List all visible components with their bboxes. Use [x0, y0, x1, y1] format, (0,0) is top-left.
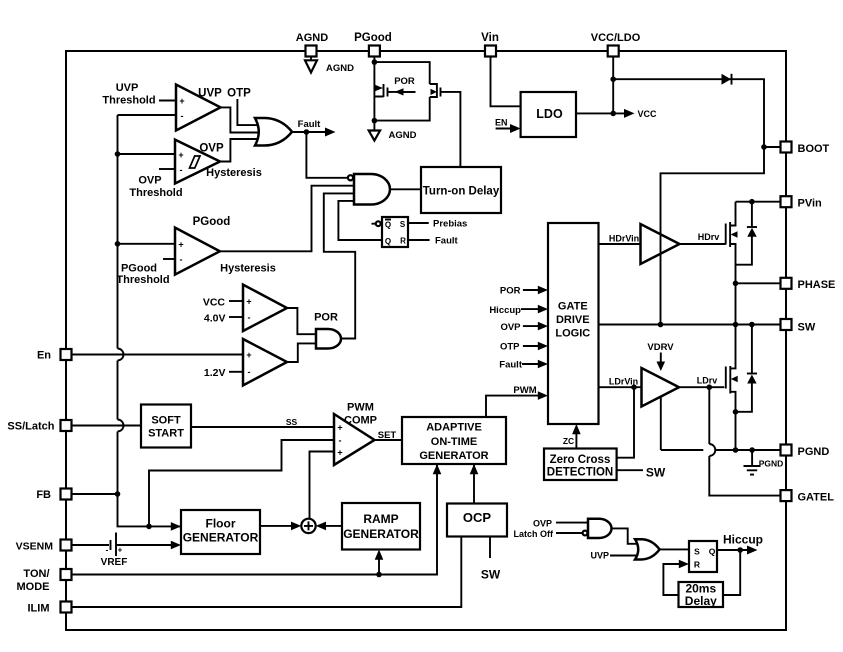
wire: UVP plus stub	[159, 100, 176, 102]
svg-text:EN: EN	[495, 118, 508, 128]
wire: prebias latch S to Prebias label	[408, 222, 429, 224]
wire: OVP output to OR gate	[220, 139, 262, 162]
IC boundary	[66, 51, 786, 630]
svg-text:UVP: UVP	[116, 82, 139, 94]
summing junction	[301, 519, 315, 533]
comparator VCC 4.0V	[243, 285, 287, 331]
svg-text:POR: POR	[314, 312, 338, 324]
node: TON ramp junction	[376, 572, 382, 578]
pin BOOT	[781, 142, 792, 153]
node: PGood pin top junction	[372, 59, 378, 65]
pin PGND	[781, 445, 792, 456]
svg-text:+: +	[118, 546, 123, 555]
ground PGND symbol	[744, 466, 761, 475]
transistor Q-high NMOS	[725, 224, 727, 245]
wire: 4.0V minus stub	[229, 316, 243, 318]
wire: GDL HDrVin output to high driver	[599, 243, 643, 245]
svg-text:Floor: Floor	[206, 517, 236, 531]
wire: hiccup AND OVP input	[556, 522, 588, 524]
wire: OCP SW stub	[489, 537, 491, 559]
node: bus-OVP junction	[115, 151, 121, 157]
wire: low FET drain to SW line	[730, 325, 735, 369]
wire: OCP to adaptive on-time	[473, 457, 475, 504]
wire: VCC plus stub	[229, 300, 243, 302]
wire: low driver output LDrv to low FET gate	[679, 386, 724, 388]
wire: PHASE line to pin	[736, 282, 781, 284]
svg-text:VDRV: VDRV	[647, 342, 674, 353]
node: LDrv GATEL junction	[707, 384, 713, 390]
arrow: OCP into adaptive	[470, 464, 479, 474]
wire: FB/threshold vertical bus with hops over En and SS lines	[118, 115, 182, 526]
arrow: GDL POR input	[538, 286, 548, 295]
svg-text:UVP: UVP	[198, 88, 222, 100]
svg-text:PGND: PGND	[798, 446, 830, 458]
svg-text:AGND: AGND	[326, 63, 354, 74]
pin SW	[781, 319, 792, 330]
svg-text:GATEL: GATEL	[798, 492, 835, 504]
arrow: Hiccup output	[747, 546, 758, 555]
wire: BOOT feed down to high side driver	[661, 147, 765, 218]
svg-text:4.0V: 4.0V	[204, 313, 226, 325]
node: PGood pin bottom junction	[372, 118, 378, 124]
svg-text:Hysteresis: Hysteresis	[206, 167, 262, 179]
svg-text:GENERATOR: GENERATOR	[343, 527, 419, 541]
wire: branch up to ramp generator bottom	[378, 555, 380, 575]
svg-text:LDrv: LDrv	[697, 376, 718, 386]
ground AGND symbol top	[305, 60, 317, 72]
arrow: ZC into GDL	[572, 424, 581, 434]
wire: POR AND output to fault AND input	[324, 193, 355, 338]
wire: SS/Latch pin to SOFT START	[71, 425, 141, 427]
wire: high FET drain to PVin line	[730, 202, 735, 226]
svg-text:UVP: UVP	[590, 551, 609, 561]
wire: hop arc over SS/Latch line	[118, 420, 124, 432]
node: high diode on PVin	[749, 199, 755, 205]
block ADAPTIVE ON-TIME GENERATOR	[402, 417, 506, 464]
svg-text:PGood: PGood	[354, 32, 392, 44]
block RAMP GENERATOR	[342, 503, 420, 550]
wire: prebias latch Q feedback to fault AND input	[338, 201, 382, 240]
wire: PWM comp third input from summing node	[310, 452, 336, 520]
svg-text:PWM: PWM	[513, 385, 536, 396]
wire: GDL OVP input	[523, 325, 541, 327]
pin FB	[61, 489, 72, 500]
and-gate fault combiner	[354, 174, 390, 205]
block Turn-on Delay	[421, 167, 501, 213]
wire: high side body diode branch	[736, 202, 752, 265]
pin GATEL	[781, 490, 792, 501]
arrow: GDL OTP input	[538, 342, 548, 351]
svg-text:+: +	[337, 448, 342, 458]
svg-text:RAMP: RAMP	[363, 512, 398, 526]
wire: GDL OTP input	[523, 345, 541, 347]
wire: UVP input to hiccup OR	[610, 555, 640, 557]
svg-text:Threshold: Threshold	[116, 274, 169, 286]
wire: En line to 1.2V comparator	[71, 354, 243, 356]
svg-text:OCP: OCP	[463, 510, 492, 525]
svg-text:ADAPTIVE: ADAPTIVE	[426, 422, 482, 434]
arrow: VREF into floor generator	[171, 541, 181, 550]
svg-text:Q: Q	[385, 221, 391, 230]
pin PHASE	[781, 278, 792, 289]
svg-text:+: +	[178, 240, 183, 250]
svg-text:VREF: VREF	[101, 557, 128, 568]
wire: high FET source down	[730, 244, 735, 283]
arrow: VDRV into low driver	[660, 353, 662, 365]
svg-text:SS/Latch: SS/Latch	[7, 421, 54, 433]
svg-text:Threshold: Threshold	[102, 95, 155, 107]
node: VCC junction	[610, 111, 616, 117]
wire: PGood plus input	[118, 243, 176, 245]
wire: hop arc over En line	[118, 349, 124, 361]
pin VCC/LDO	[608, 46, 619, 57]
svg-text:HDrVin: HDrVin	[609, 234, 639, 244]
svg-text:SW: SW	[481, 568, 501, 582]
wire: PGND line from low driver return to PGND pin	[661, 449, 781, 451]
svg-text:DRIVE: DRIVE	[556, 314, 590, 326]
wire: VCC/LDO pin vertical	[612, 57, 614, 114]
svg-text:TON/: TON/	[23, 568, 49, 580]
svg-text:-: -	[339, 436, 342, 446]
wire: OVP plus input	[118, 153, 176, 155]
block Zero Cross DETECTION	[544, 449, 617, 481]
svg-text:START: START	[148, 428, 184, 440]
svg-text:PGood: PGood	[193, 216, 231, 228]
wire: left PMOS gate line with arrow	[389, 91, 416, 93]
svg-text:MODE: MODE	[17, 581, 50, 593]
svg-text:Vin: Vin	[481, 32, 499, 44]
svg-text:+: +	[179, 96, 184, 106]
svg-text:LDrVin: LDrVin	[609, 377, 638, 387]
pin SS/Latch	[61, 420, 72, 431]
svg-text:+: +	[178, 150, 183, 160]
svg-text:Prebias: Prebias	[433, 219, 467, 230]
wire: EN arrow line into LDO	[496, 128, 514, 130]
svg-text:Hiccup: Hiccup	[723, 533, 763, 547]
svg-text:Fault: Fault	[298, 119, 322, 130]
wire: hiccup OR output to latch S	[660, 548, 689, 550]
svg-text:ON-TIME: ON-TIME	[431, 436, 477, 448]
arrow: GDL PWM input	[538, 391, 548, 400]
pin PVin	[781, 196, 792, 207]
svg-text:AGND: AGND	[296, 32, 328, 44]
svg-text:OTP: OTP	[227, 88, 251, 100]
block GATE DRIVE LOGIC	[548, 223, 599, 424]
svg-text:PVin: PVin	[798, 198, 823, 210]
svg-text:Q: Q	[709, 547, 716, 557]
svg-text:Q: Q	[385, 237, 391, 246]
svg-text:-: -	[181, 111, 184, 121]
svg-text:SET: SET	[378, 430, 397, 441]
svg-text:Fault: Fault	[499, 360, 523, 371]
arrow: GDL OVP input	[538, 322, 548, 331]
svg-text:SOFT: SOFT	[151, 415, 181, 427]
svg-text:OVP: OVP	[199, 143, 224, 155]
wire: FET chain vertical to SW line	[735, 283, 737, 324]
pin En	[61, 349, 72, 360]
svg-text:-: -	[106, 546, 109, 555]
svg-text:GATE: GATE	[558, 301, 588, 313]
comparator 1.2V	[243, 339, 287, 385]
buffer low side driver	[642, 368, 680, 407]
arrow: Fault output	[325, 128, 336, 137]
node: PGND ground junction	[749, 447, 755, 453]
node: bus-PGood junction	[115, 241, 121, 247]
inverter bubble on Latch Off input	[583, 531, 588, 536]
wire: UVP minus input	[118, 114, 177, 116]
svg-text:+: +	[246, 350, 251, 360]
block 20ms Delay	[679, 582, 724, 607]
wire: LDO output to VCC arrow	[576, 112, 627, 114]
wire: GDL Fault input	[522, 363, 541, 365]
node: FB junction	[115, 491, 121, 497]
latch U-hiccup SR	[689, 541, 717, 572]
transistor Q-low NMOS	[725, 367, 727, 389]
node: FET chain on SW	[733, 322, 739, 328]
pin AGND	[306, 46, 317, 57]
svg-text:Hiccup: Hiccup	[489, 305, 521, 316]
svg-text:-: -	[180, 165, 183, 175]
wire: prebias latch Qbar stub with bubble	[372, 223, 376, 225]
wire: UVP output to OR gate	[221, 107, 263, 132]
or-gate hiccup (with UVP)	[635, 539, 660, 559]
buffer high side driver	[641, 224, 680, 264]
node: low diode anode junction	[733, 409, 739, 415]
pin ILIM	[61, 602, 72, 613]
wire: hiccup feedback down to 20ms delay	[723, 550, 740, 595]
wire: right PMOS gate to Turn-on Delay top	[442, 92, 460, 167]
svg-text:S: S	[400, 220, 406, 229]
wire: PGND ground stub	[751, 450, 753, 466]
svg-text:Hysteresis: Hysteresis	[220, 263, 276, 275]
wire: 20ms delay output to latch R	[663, 564, 681, 595]
wire: GDL Hiccup input	[521, 308, 541, 310]
svg-text:Threshold: Threshold	[129, 187, 182, 199]
arrow: EN into LDO	[510, 124, 521, 133]
svg-text:GENERATOR: GENERATOR	[183, 531, 259, 545]
pin TON/MODE	[61, 569, 72, 580]
svg-text:VCC: VCC	[203, 297, 226, 309]
svg-text:FB: FB	[36, 489, 51, 501]
svg-text:VCC/LDO: VCC/LDO	[591, 32, 641, 44]
wire: PWM output of adaptive block to gate drive logic	[486, 396, 541, 417]
wire: ILIM line to OCP	[71, 537, 461, 608]
svg-text:R: R	[694, 560, 700, 570]
comparator PWM COMP	[334, 414, 375, 465]
wire: TON/MODE line to adaptive on-time bottom	[71, 457, 437, 575]
svg-text:-: -	[248, 367, 251, 377]
comparator PGood	[175, 228, 220, 275]
node: floor input junction	[146, 524, 152, 530]
wire: FB pin to bus	[71, 493, 118, 495]
arrow: GDL Fault input	[538, 360, 548, 369]
arrow: FB into floor generator	[171, 522, 181, 531]
wire: SOFT START output SS to PWM comp plus	[191, 426, 335, 428]
svg-text:ILIM: ILIM	[28, 603, 50, 615]
wire: GDL LDrVin output to low driver	[599, 386, 644, 388]
wire: low side body diode branch	[736, 325, 752, 412]
svg-text:POR: POR	[394, 76, 415, 87]
hysteresis symbol inside OVP comparator	[190, 156, 201, 168]
svg-text:-: -	[248, 313, 251, 323]
wire: hiccup latch Q output	[717, 549, 753, 551]
arrow: TON into ramp generator	[375, 550, 384, 560]
wire: VSENM pin through VREF to floor generator	[71, 544, 109, 546]
wire: VCC/LDO branch through boot diode to BOOT pin	[613, 79, 780, 147]
wire: zero cross SW stub	[617, 469, 643, 471]
wire: ZC output up to GDL	[575, 430, 577, 449]
svg-text:OVP: OVP	[138, 175, 161, 187]
and-gate hiccup (OVP/Latch Off)	[588, 519, 612, 538]
arrow into left PMOS gate	[395, 88, 404, 95]
node: BOOT junction	[761, 144, 767, 150]
node: VCC/LDO upper junction	[610, 76, 616, 82]
wire: OVP minus stub	[159, 168, 175, 170]
arrow: floor into summing	[291, 522, 301, 531]
node: low FET source on PGND	[733, 447, 739, 453]
svg-text:PWM: PWM	[347, 402, 374, 414]
wire: floor generator output to summing node	[260, 525, 295, 527]
wire: VCC comparator output to POR AND	[287, 308, 316, 334]
wire: PWM comp minus from floor line	[149, 440, 335, 526]
svg-text:R: R	[400, 237, 406, 246]
wire: prebias latch R to Fault label	[408, 239, 430, 241]
svg-text:Zero Cross: Zero Cross	[550, 454, 611, 466]
svg-text:LOGIC: LOGIC	[555, 328, 590, 340]
svg-text:OVP: OVP	[500, 322, 521, 333]
svg-text:OVP: OVP	[533, 518, 552, 528]
block SOFT START	[141, 405, 191, 448]
svg-text:-: -	[180, 255, 183, 265]
wire: SW net line from GDL to SW pin	[599, 324, 781, 326]
wire: fault AND output to Turn-on Delay	[390, 188, 421, 190]
wire: high driver output HDrv to high FET gate	[680, 243, 726, 245]
diode D-low body	[747, 373, 757, 375]
node: PHASE junction	[733, 281, 739, 287]
comparator UVP	[176, 85, 221, 131]
wire: PGood pin to AGND vertical	[373, 57, 375, 131]
svg-text:Delay: Delay	[685, 594, 717, 608]
latch U-prebias SR	[382, 217, 408, 247]
wire: PWM comp SET output to adaptive on-time	[375, 439, 403, 441]
comparator OVP	[175, 140, 220, 184]
block OCP	[447, 504, 507, 537]
svg-text:+: +	[337, 423, 342, 433]
svg-text:+: +	[246, 297, 251, 307]
node: low diode on SW	[749, 322, 755, 328]
svg-text:SS: SS	[286, 417, 298, 427]
arrow: TON into adaptive	[433, 464, 442, 474]
pin Vin	[485, 46, 496, 57]
wire: BOOT vertical crossing high driver to SW line	[660, 218, 662, 325]
wire: ramp generator output to summing node	[322, 525, 342, 527]
svg-text:LDO: LDO	[536, 107, 563, 121]
transistor Q1 PMOS left of POR pair	[374, 85, 383, 92]
wire: LDrv branch down to GATEL with hop over PGND line	[709, 387, 780, 495]
wire: low driver return to PGND line	[660, 396, 662, 450]
wire: LDrVin branch down to zero cross detection	[617, 387, 634, 458]
and-gate POR combiner	[316, 329, 341, 349]
wire: 1.2V comparator output to POR AND	[287, 343, 316, 362]
wire: POR transistor loop top	[374, 62, 429, 84]
svg-text:VCC: VCC	[638, 109, 658, 119]
or-gate U-fault (UVP/OTP/OVP)	[255, 118, 292, 146]
wire: hiccup AND Latch Off stub	[556, 532, 583, 534]
svg-text:S: S	[694, 547, 700, 557]
arrow: VCC output	[624, 109, 635, 118]
svg-text:En: En	[37, 350, 51, 362]
wire: low FET source down to PGND line	[730, 392, 735, 450]
svg-text:VSENM: VSENM	[16, 541, 54, 553]
svg-text:SW: SW	[646, 466, 666, 480]
arrow: delay into latch R	[679, 560, 689, 569]
svg-text:AGND: AGND	[389, 130, 417, 141]
svg-text:Turn-on Delay: Turn-on Delay	[423, 186, 500, 198]
battery VREF	[111, 533, 117, 557]
pin PGood	[369, 46, 380, 57]
svg-text:PHASE: PHASE	[798, 279, 836, 291]
transistor Q2 PMOS right of POR pair	[430, 83, 437, 98]
wire: POR transistor loop bottom	[374, 97, 429, 121]
svg-text:POR: POR	[500, 286, 521, 297]
svg-text:1.2V: 1.2V	[204, 367, 226, 379]
wire: PGood comparator output up to fault AND input	[220, 186, 354, 252]
node: hiccup output junction	[737, 547, 743, 553]
inverter bubble on fault AND top input	[348, 175, 353, 180]
svg-text:GENERATOR: GENERATOR	[419, 450, 488, 462]
svg-text:SW: SW	[798, 322, 816, 334]
svg-text:PGood: PGood	[121, 263, 157, 275]
wire: 1.2V minus stub	[229, 371, 243, 373]
svg-text:Latch Off: Latch Off	[514, 529, 555, 539]
arrow: GDL Hiccup input	[538, 305, 548, 314]
svg-text:DETECTION: DETECTION	[547, 467, 613, 479]
node: LDrVin junction	[631, 384, 637, 390]
diode D-high body	[747, 226, 757, 228]
svg-text:BOOT: BOOT	[798, 143, 830, 155]
svg-text:PGND: PGND	[759, 459, 784, 469]
svg-text:HDrv: HDrv	[698, 232, 720, 242]
ground AGND symbol POR circuit	[369, 131, 380, 141]
svg-text:COMP: COMP	[344, 415, 377, 427]
node: fault junction	[304, 129, 310, 135]
diode D-boot	[722, 74, 732, 85]
wire: hiccup AND output to OR	[612, 528, 640, 543]
wire: PVin line to pin	[736, 201, 781, 203]
block Floor GENERATOR	[181, 510, 260, 554]
wire: PGood minus stub	[163, 258, 175, 260]
node: high driver return on SW	[658, 322, 664, 328]
wire: Vin pin down into LDO	[491, 57, 521, 107]
svg-text:ZC: ZC	[563, 436, 574, 446]
arrow: ramp into summing	[316, 522, 326, 531]
wire: Fault output with branch down to fault AND gate	[292, 131, 331, 133]
wire: GDL POR input	[523, 289, 541, 291]
wire: OTP line into OR gate	[237, 99, 262, 125]
pin VSENM	[61, 540, 72, 551]
svg-text:OTP: OTP	[500, 342, 520, 353]
svg-text:Fault: Fault	[435, 236, 459, 247]
block LDO	[521, 92, 576, 137]
